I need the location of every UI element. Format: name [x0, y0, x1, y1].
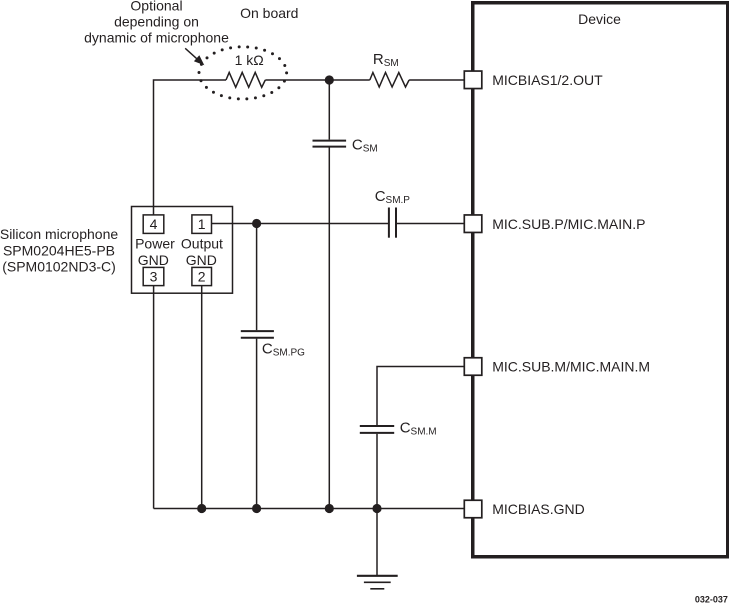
mic pin 1 square — [192, 215, 212, 234]
capacitor CSM.M — [360, 426, 394, 433]
svg-text:CSM.M: CSM.M — [400, 420, 437, 438]
svg-text:4: 4 — [150, 216, 158, 232]
svg-text:Optional: Optional — [130, 0, 182, 14]
device pin square MIC.SUB.P — [464, 215, 482, 233]
svg-text:depending on: depending on — [114, 14, 199, 30]
wire: CSM.M down to ground bus — [376, 434, 378, 509]
wire: RSM to MICBIAS pin — [409, 79, 464, 81]
svg-text:GND: GND — [138, 252, 169, 268]
svg-text:MICBIAS.GND: MICBIAS.GND — [492, 501, 585, 517]
wire: resistor R1 to node A and RSM — [265, 79, 370, 81]
svg-text:032-037: 032-037 — [695, 595, 728, 604]
svg-text:dynamic of microphone: dynamic of microphone — [84, 29, 229, 45]
wire: ground stem — [376, 509, 378, 576]
device box U1 — [473, 3, 728, 557]
capacitor CSM.P — [389, 208, 396, 238]
svg-text:Device: Device — [578, 11, 621, 27]
node B junction dot — [252, 219, 261, 228]
wire: CSM.PG down to ground bus — [256, 339, 258, 509]
svg-text:Silicon microphone: Silicon microphone — [0, 226, 118, 242]
svg-text:CSM.PG: CSM.PG — [262, 340, 305, 358]
svg-text:MIC.SUB.P/MIC.MAIN.P: MIC.SUB.P/MIC.MAIN.P — [492, 216, 645, 232]
mic name label — [0, 226, 118, 274]
wire: node A down to CSM — [328, 80, 330, 140]
mic pin 4 square — [143, 215, 164, 234]
annotation arrow — [185, 48, 204, 65]
ground symbol — [357, 576, 398, 589]
svg-text:GND: GND — [186, 252, 217, 268]
svg-text:MICBIAS1/2.OUT: MICBIAS1/2.OUT — [492, 72, 603, 88]
device pin square MICBIAS.GND — [464, 500, 482, 518]
wire: MIC.SUB.M pin left and down to CSM.M — [377, 367, 464, 426]
wire: CSM down to ground bus — [328, 148, 330, 509]
junction dot ground stem — [372, 504, 381, 513]
svg-text:CSM.P: CSM.P — [375, 188, 411, 206]
mic pin 3 square — [143, 267, 164, 285]
svg-text:3: 3 — [150, 269, 158, 285]
svg-text:RSM: RSM — [373, 51, 399, 69]
optional region dotted ellipse — [199, 47, 287, 99]
resistor RSM — [370, 73, 409, 88]
device pin square MIC.SUB.M — [464, 358, 482, 376]
svg-text:On board: On board — [240, 5, 298, 21]
mic pin 2 square — [192, 267, 212, 285]
wire: ground bus — [154, 508, 465, 510]
svg-text:MIC.SUB.M/MIC.MAIN.M: MIC.SUB.M/MIC.MAIN.M — [492, 359, 650, 375]
node A junction dot — [325, 75, 334, 84]
svg-text:2: 2 — [198, 269, 206, 285]
svg-text:CSM: CSM — [352, 137, 378, 155]
svg-text:(SPM0102ND3-C): (SPM0102ND3-C) — [2, 258, 116, 274]
device pin square MICBIAS1/2.OUT — [464, 71, 482, 89]
junction dot pin2 on ground bus — [197, 504, 206, 513]
wire: mic power pin 4 up and right to resistor R1 — [154, 80, 227, 215]
wire: mic GND pin 3 down to ground bus — [153, 286, 155, 509]
annotation: optional note — [84, 0, 229, 45]
svg-text:SPM0204HE5-PB: SPM0204HE5-PB — [3, 243, 115, 259]
wire: CSM.P to MIC.SUB.P pin — [397, 223, 464, 225]
resistor R1 1 kOhm — [226, 72, 265, 87]
svg-text:Output: Output — [181, 236, 223, 252]
wire: mic GND pin 2 down to ground bus — [201, 286, 203, 509]
junction dot CSM on ground bus — [325, 504, 334, 513]
capacitor CSM.PG — [241, 331, 274, 338]
svg-text:Power: Power — [135, 236, 175, 252]
wire: mic output pin 1 to CSM.P — [212, 223, 389, 225]
svg-text:1: 1 — [198, 216, 206, 232]
wire: node B down to CSM.PG — [256, 224, 258, 331]
svg-text:1 kΩ: 1 kΩ — [235, 52, 264, 68]
junction dot CSM.PG on ground bus — [252, 504, 261, 513]
capacitor CSM — [313, 141, 347, 147]
microphone box MK1 — [132, 207, 233, 294]
